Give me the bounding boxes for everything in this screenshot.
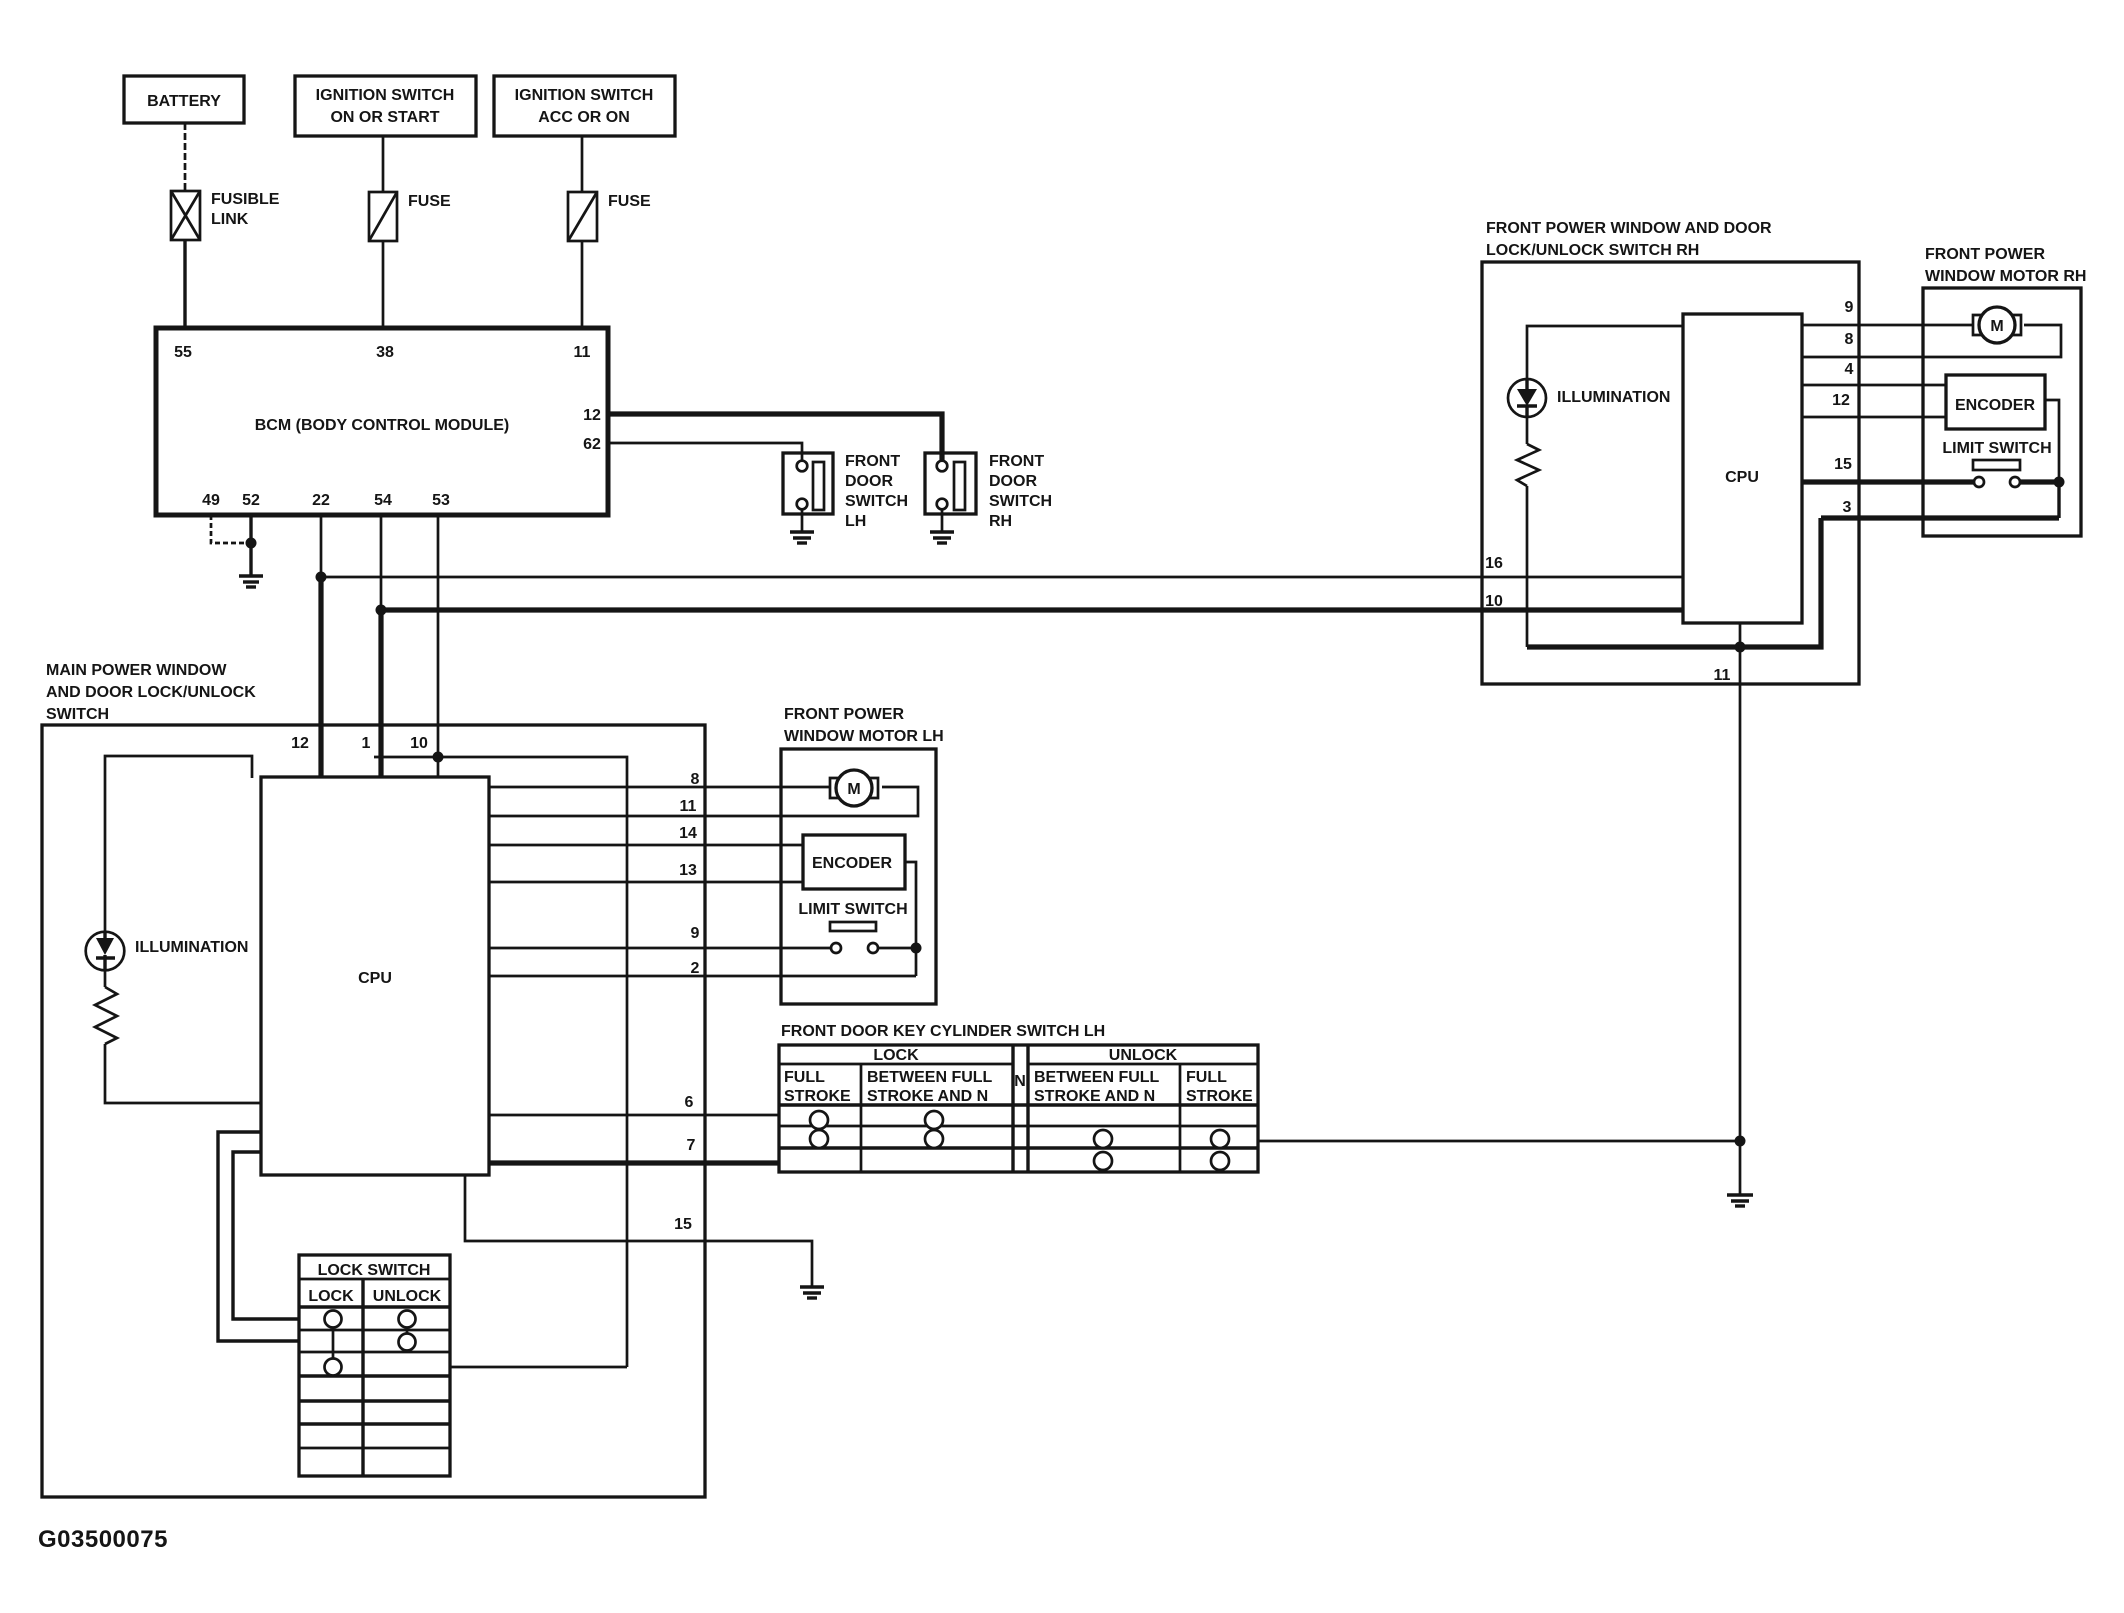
svg-text:SWITCH: SWITCH	[46, 706, 109, 723]
svg-text:15: 15	[1834, 456, 1852, 473]
illumination LED D2 RH	[1508, 379, 1670, 417]
wire main switch pin 12	[318, 577, 323, 778]
wire pin 6 to key cylinder switch	[489, 1114, 779, 1117]
svg-text:WINDOW MOTOR RH: WINDOW MOTOR RH	[1925, 268, 2086, 285]
svg-text:2: 2	[691, 960, 700, 977]
ground G1 below BCM	[239, 576, 263, 587]
svg-text:FRONT: FRONT	[845, 453, 900, 470]
svg-text:BCM (BODY CONTROL MODULE): BCM (BODY CONTROL MODULE)	[255, 417, 510, 434]
svg-text:FRONT POWER WINDOW AND DOOR: FRONT POWER WINDOW AND DOOR	[1486, 220, 1772, 237]
svg-text:STROKE AND N: STROKE AND N	[1034, 1088, 1155, 1105]
svg-text:22: 22	[312, 492, 330, 509]
svg-text:10: 10	[1485, 593, 1503, 610]
key cylinder UNLOCK between contacts	[1094, 1130, 1112, 1170]
svg-text:IGNITION SWITCH: IGNITION SWITCH	[515, 87, 654, 104]
svg-text:FULL: FULL	[784, 1069, 825, 1086]
illumination LED D1	[86, 932, 249, 971]
fusible link F1	[171, 191, 280, 240]
svg-text:ILLUMINATION: ILLUMINATION	[1557, 389, 1670, 406]
lock switch table	[299, 1255, 450, 1476]
svg-text:STROKE: STROKE	[1186, 1088, 1253, 1105]
wire pin 11 to motor LH return	[489, 787, 918, 816]
ground G5 far right	[1727, 1195, 1753, 1206]
svg-text:LOCK SWITCH: LOCK SWITCH	[318, 1262, 431, 1279]
svg-text:IGNITION SWITCH: IGNITION SWITCH	[316, 87, 455, 104]
wire pin 12 RH to encoder	[1802, 416, 1946, 419]
svg-text:7: 7	[687, 1137, 696, 1154]
wire BCM pin 62 to front door switch LH	[608, 443, 802, 461]
svg-text:FUSIBLE: FUSIBLE	[211, 191, 280, 208]
ground G3 below door switch RH	[930, 532, 954, 543]
svg-text:6: 6	[685, 1094, 694, 1111]
svg-text:CPU: CPU	[358, 970, 392, 987]
wire pin 3 RH thick	[1821, 515, 2059, 520]
wire fusible link to BCM pin 55	[183, 240, 186, 328]
wire pin 9 RH to motor RH	[1802, 324, 1972, 327]
front door switch LH SW1	[783, 453, 908, 530]
svg-text:14: 14	[679, 825, 697, 842]
wire CPU RH bottom to junction	[1739, 623, 1742, 647]
net BCM54 to RH switch pin 10 (long thick wire)	[381, 607, 1683, 612]
svg-text:STROKE: STROKE	[784, 1088, 851, 1105]
wire ignition1 to fuse1	[382, 136, 385, 192]
svg-text:DOOR: DOOR	[989, 473, 1037, 490]
wire pin 4 RH to encoder	[1802, 384, 1946, 387]
svg-text:1: 1	[362, 735, 371, 752]
svg-text:LOCK: LOCK	[873, 1047, 919, 1064]
resistor R1	[95, 970, 117, 1044]
svg-text:G03500075: G03500075	[38, 1526, 168, 1553]
wire main switch pin 1	[378, 610, 383, 778]
ground G2 below door switch LH	[790, 532, 814, 543]
wire pin 8 RH motor return	[1802, 325, 2061, 357]
svg-text:SWITCH: SWITCH	[845, 493, 908, 510]
svg-text:LIMIT SWITCH: LIMIT SWITCH	[1942, 440, 2051, 457]
junction main pin 10 node	[433, 752, 444, 763]
svg-text:STROKE AND N: STROKE AND N	[867, 1088, 988, 1105]
wire encoder RH to limit node	[2045, 400, 2059, 482]
front door key cylinder switch LH table	[779, 1023, 1258, 1172]
ignition switch ON OR START box	[295, 76, 476, 136]
CPU U2 main	[261, 777, 489, 1175]
svg-text:38: 38	[376, 344, 394, 361]
svg-text:BETWEEN FULL: BETWEEN FULL	[867, 1069, 993, 1086]
svg-text:13: 13	[679, 862, 697, 879]
wire pin 13 to encoder LH	[489, 881, 803, 884]
junction ground net	[1735, 1136, 1746, 1147]
net BCM22 to RH switch pin 16 (long wire)	[321, 576, 1683, 579]
wire CPU to lock switch top row (inner)	[233, 1152, 299, 1319]
wire key cylinder to ground net	[1258, 1140, 1740, 1143]
svg-text:11: 11	[574, 344, 591, 361]
svg-text:LIMIT SWITCH: LIMIT SWITCH	[798, 901, 907, 918]
junction pin 22 / net 16	[316, 572, 327, 583]
wire pin 8 to motor LH	[489, 786, 830, 789]
svg-text:FULL: FULL	[1186, 1069, 1227, 1086]
svg-text:12: 12	[1832, 392, 1850, 409]
wire battery to fusible link	[184, 123, 187, 191]
svg-text:UNLOCK: UNLOCK	[373, 1288, 442, 1305]
svg-text:11: 11	[1714, 667, 1731, 684]
svg-text:BATTERY: BATTERY	[147, 93, 221, 110]
svg-text:FUSE: FUSE	[608, 193, 651, 210]
svg-text:10: 10	[410, 735, 428, 752]
main power window and door lock/unlock switch box	[42, 662, 705, 1497]
front door switch RH SW2	[925, 453, 1052, 530]
junction limit switch LH	[911, 943, 922, 954]
svg-text:15: 15	[674, 1216, 692, 1233]
wire LED top to CPU	[105, 756, 252, 932]
wire BCM pin 54 down	[380, 515, 383, 610]
svg-text:FUSE: FUSE	[408, 193, 451, 210]
wire BCM pin 12 to front door switch RH	[608, 414, 942, 461]
svg-text:9: 9	[691, 925, 700, 942]
motor M2 RH	[1973, 307, 2021, 343]
wire door switch RH to ground	[941, 509, 944, 531]
resistor R2 RH	[1517, 417, 1539, 486]
svg-text:LOCK/UNLOCK SWITCH RH: LOCK/UNLOCK SWITCH RH	[1486, 242, 1699, 259]
svg-text:MAIN POWER WINDOW: MAIN POWER WINDOW	[46, 662, 227, 679]
svg-text:12: 12	[583, 407, 601, 424]
svg-text:11: 11	[680, 798, 697, 815]
svg-text:54: 54	[374, 492, 392, 509]
svg-text:RH: RH	[989, 513, 1012, 530]
svg-text:9: 9	[1845, 299, 1854, 316]
svg-text:62: 62	[583, 436, 601, 453]
junction limit switch RH	[2054, 477, 2065, 488]
ignition switch ACC OR ON box	[494, 76, 675, 136]
limit switch RH	[1942, 440, 2059, 487]
svg-text:UNLOCK: UNLOCK	[1109, 1047, 1178, 1064]
wire BCM pin 52 to ground	[249, 515, 252, 575]
svg-text:CPU: CPU	[1725, 469, 1759, 486]
wire BCM pin 53 / main switch pin 10	[437, 515, 440, 778]
wire CPU to lock switch lock contact (outer)	[218, 1132, 299, 1341]
svg-text:49: 49	[202, 492, 220, 509]
wire pin 7 to key cylinder switch	[489, 1160, 779, 1165]
junction pins 49/52	[246, 538, 257, 549]
wire limit node RH down to pin3 net	[2057, 482, 2060, 518]
svg-text:ENCODER: ENCODER	[1955, 397, 2035, 414]
wire resistor to CPU	[105, 1044, 261, 1103]
svg-text:ON OR START: ON OR START	[330, 109, 439, 126]
encoder RH box	[1946, 375, 2045, 429]
ground G4 main switch	[800, 1287, 824, 1298]
wire BCM pin 22 down	[320, 515, 323, 578]
lock switch LOCK contacts	[325, 1311, 342, 1376]
wire door switch LH to ground	[801, 509, 804, 531]
svg-text:AND DOOR LOCK/UNLOCK: AND DOOR LOCK/UNLOCK	[46, 684, 256, 701]
wire encoder LH to limit node	[905, 862, 916, 976]
svg-text:FRONT DOOR KEY CYLINDER SWITCH: FRONT DOOR KEY CYLINDER SWITCH LH	[781, 1023, 1105, 1040]
wire pin 9 to limit switch LH	[489, 947, 831, 950]
wire ignition2 to fuse2	[581, 136, 584, 192]
svg-text:FRONT: FRONT	[989, 453, 1044, 470]
junction CPU RH bottom	[1735, 642, 1746, 653]
wire fuse1 to BCM pin 38	[382, 241, 385, 328]
svg-text:55: 55	[174, 344, 192, 361]
wire pin 14 to encoder LH	[489, 844, 803, 847]
svg-text:SWITCH: SWITCH	[989, 493, 1052, 510]
svg-text:16: 16	[1485, 555, 1503, 572]
svg-text:3: 3	[1843, 499, 1852, 516]
limit switch LH	[798, 901, 916, 953]
front power window motor RH box	[1923, 246, 2086, 536]
wire lock switch to node10 vertical	[450, 1366, 627, 1369]
battery B1	[124, 76, 244, 123]
svg-text:53: 53	[432, 492, 450, 509]
svg-text:52: 52	[242, 492, 260, 509]
svg-text:N: N	[1014, 1073, 1026, 1090]
wire node10 to lock switch feed	[374, 757, 627, 1367]
svg-text:M: M	[1990, 318, 2003, 335]
front power window motor LH box	[781, 706, 944, 1004]
fuse F2	[369, 192, 451, 241]
junction pin 54 / net 10	[376, 605, 387, 616]
svg-text:LOCK: LOCK	[308, 1288, 354, 1305]
thick bottom net RH	[1527, 518, 1821, 647]
BCM (body control module) U1	[156, 328, 608, 515]
svg-text:BETWEEN FULL: BETWEEN FULL	[1034, 1069, 1160, 1086]
svg-text:FRONT POWER: FRONT POWER	[1925, 246, 2045, 263]
fuse F3	[568, 192, 651, 241]
wire fuse2 to BCM pin 11	[581, 241, 584, 328]
wire pin 15 RH to limit switch	[1802, 479, 1974, 484]
svg-text:8: 8	[691, 771, 700, 788]
svg-text:4: 4	[1845, 361, 1854, 378]
key cylinder LOCK full stroke contacts	[810, 1111, 828, 1148]
encoder LH box	[803, 835, 905, 889]
svg-text:LINK: LINK	[211, 211, 249, 228]
svg-text:8: 8	[1845, 331, 1854, 348]
svg-text:FRONT POWER: FRONT POWER	[784, 706, 904, 723]
svg-text:ACC OR ON: ACC OR ON	[538, 109, 630, 126]
motor M1 LH	[830, 770, 878, 806]
wire junction to ground G5	[1739, 1141, 1742, 1194]
lock switch UNLOCK contacts	[399, 1311, 416, 1351]
front power window and door lock/unlock switch RH box	[1482, 220, 1859, 684]
wire resistor RH to bottom node	[1526, 486, 1529, 647]
wire pin 2 to limit switch node	[489, 975, 916, 978]
key cylinder UNLOCK full stroke contacts	[1211, 1130, 1229, 1170]
key cylinder LOCK between contacts	[925, 1111, 943, 1148]
wire BCM pin 49	[211, 515, 250, 543]
svg-text:M: M	[847, 781, 860, 798]
svg-text:DOOR: DOOR	[845, 473, 893, 490]
svg-text:WINDOW MOTOR LH: WINDOW MOTOR LH	[784, 728, 944, 745]
CPU U3 RH	[1683, 314, 1802, 623]
svg-text:ILLUMINATION: ILLUMINATION	[135, 939, 248, 956]
svg-text:LH: LH	[845, 513, 866, 530]
svg-text:ENCODER: ENCODER	[812, 855, 892, 872]
wire LED RH top to CPU	[1527, 326, 1683, 378]
wire CPU pin 15 to ground	[465, 1175, 812, 1286]
svg-text:12: 12	[291, 735, 309, 752]
